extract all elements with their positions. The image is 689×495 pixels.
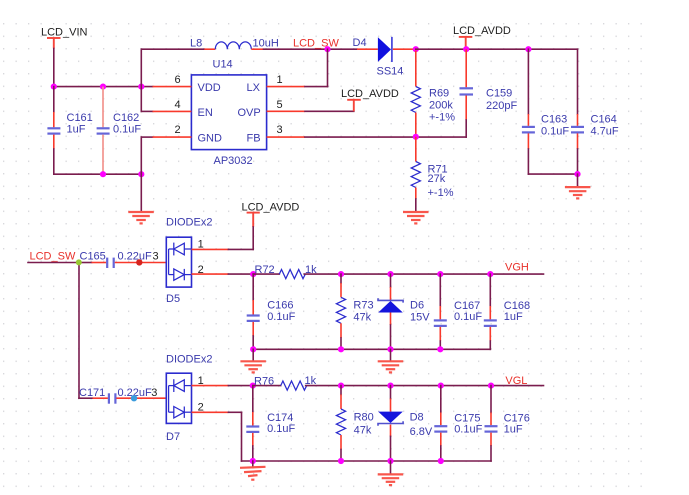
svg-text:4.7uF: 4.7uF bbox=[591, 125, 619, 137]
pin 2 GND bbox=[141, 124, 191, 174]
node junction AVDD 2 bbox=[525, 46, 531, 52]
svg-text:LCD_VIN: LCD_VIN bbox=[41, 27, 88, 39]
svg-text:VDD: VDD bbox=[198, 82, 221, 94]
node junction VGL 5 bbox=[488, 383, 494, 389]
node junction 2 bbox=[100, 84, 106, 90]
svg-text:C164: C164 bbox=[591, 113, 617, 125]
capacitor C166 bbox=[247, 274, 296, 349]
pin number 3 of D5 bbox=[153, 250, 159, 262]
node junction VGL gnd 4 bbox=[438, 458, 444, 464]
svg-text:C171: C171 bbox=[79, 387, 105, 399]
svg-text:1: 1 bbox=[198, 239, 204, 251]
svg-text:+-1%: +-1% bbox=[428, 187, 454, 199]
pin 5 OVP bbox=[267, 99, 354, 112]
power port LCD_AVDD ovp bbox=[341, 88, 399, 112]
net label LCD_SW bbox=[293, 37, 339, 49]
ground GND6 bbox=[240, 461, 266, 480]
pin 1 LX bbox=[267, 49, 328, 86]
node junction 4 bbox=[100, 171, 106, 177]
svg-text:2: 2 bbox=[198, 264, 204, 276]
ground GND5 bbox=[378, 349, 404, 372]
svg-text:4: 4 bbox=[175, 99, 181, 111]
svg-text:47k: 47k bbox=[353, 312, 371, 324]
svg-text:0.1uF: 0.1uF bbox=[113, 124, 141, 136]
svg-text:D4: D4 bbox=[353, 37, 367, 49]
svg-text:C175: C175 bbox=[454, 412, 480, 424]
node junction VGL gnd 2 bbox=[338, 458, 344, 464]
wire VDD rail bbox=[54, 86, 153, 88]
svg-text:R72: R72 bbox=[255, 264, 275, 276]
svg-text:C176: C176 bbox=[504, 412, 530, 424]
svg-text:R73: R73 bbox=[353, 300, 373, 312]
svg-text:6: 6 bbox=[175, 74, 181, 86]
svg-text:AP3032: AP3032 bbox=[214, 155, 253, 167]
node junction VGL 3 bbox=[387, 383, 393, 389]
node junction VGH 3 bbox=[387, 271, 393, 277]
svg-text:6.8V: 6.8V bbox=[410, 426, 433, 438]
svg-text:3: 3 bbox=[277, 124, 283, 136]
node green junction bbox=[76, 259, 82, 265]
wire LCD_VIN vertical bbox=[53, 49, 55, 87]
ground GND2 bbox=[403, 199, 429, 223]
pin 1 of D7 bbox=[192, 375, 253, 387]
capacitor C168 bbox=[484, 274, 530, 349]
svg-text:1uF: 1uF bbox=[504, 311, 523, 323]
svg-text:47k: 47k bbox=[354, 425, 372, 437]
wire VGH rail bbox=[304, 273, 543, 275]
node junction after D4 bbox=[413, 46, 419, 52]
node junction VGH 5 bbox=[487, 271, 493, 277]
capacitor C174 bbox=[246, 386, 295, 461]
svg-text:DIODEx2: DIODEx2 bbox=[166, 353, 212, 365]
wire AVDD top rail bbox=[416, 48, 578, 50]
wire LCD_SW stub bbox=[28, 262, 79, 264]
svg-text:5: 5 bbox=[277, 99, 283, 111]
wire VGH bottom rail bbox=[253, 348, 490, 350]
node junction VGL 1 bbox=[250, 383, 256, 389]
svg-text:DIODEx2: DIODEx2 bbox=[166, 216, 212, 228]
node junction VGH 1 bbox=[250, 271, 256, 277]
node junction C164 bbox=[574, 171, 580, 177]
diode D4 SS14 bbox=[353, 37, 416, 78]
pin 1 of D5 bbox=[192, 239, 254, 251]
wire C163 C164 bottom rail bbox=[528, 173, 577, 175]
svg-text:R80: R80 bbox=[354, 412, 374, 424]
pin 2 of D7 bbox=[192, 402, 242, 462]
svg-text:3: 3 bbox=[153, 250, 159, 262]
ground GND3 bbox=[565, 174, 591, 198]
net label LCD_SW mid bbox=[30, 250, 76, 262]
node junction VGH gnd 1 bbox=[250, 346, 256, 352]
svg-text:C166: C166 bbox=[267, 299, 293, 311]
diode pack D5 bbox=[166, 237, 192, 305]
resistor R76 bbox=[253, 375, 317, 390]
svg-text:2: 2 bbox=[175, 124, 181, 136]
capacitor C164 bbox=[571, 49, 619, 174]
svg-text:LCD_SW: LCD_SW bbox=[293, 37, 339, 49]
capacitor C165 bbox=[79, 250, 166, 268]
node junction 5 bbox=[138, 171, 144, 177]
resistor R73 bbox=[336, 274, 373, 349]
svg-text:C162: C162 bbox=[113, 112, 139, 124]
node junction VGH gnd 3 bbox=[387, 346, 393, 352]
node junction VGL 4 bbox=[438, 383, 444, 389]
svg-text:R69: R69 bbox=[429, 88, 449, 100]
svg-text:EN: EN bbox=[198, 107, 213, 119]
wire top rail left bbox=[141, 49, 204, 111]
wire LCD_SW vertical drop bbox=[78, 263, 80, 399]
label DIODEx2 lower bbox=[166, 353, 212, 365]
wire LCD_SW segment bbox=[264, 48, 358, 50]
zener diode D8 bbox=[378, 386, 433, 461]
svg-text:2: 2 bbox=[198, 402, 204, 414]
op-amp U14 AP3032 bbox=[191, 59, 266, 168]
pin 4 EN bbox=[141, 99, 191, 112]
ground GND4 bbox=[240, 349, 266, 372]
ground GND1 bbox=[128, 174, 154, 223]
svg-text:R76: R76 bbox=[254, 375, 274, 387]
svg-text:LCD_AVDD: LCD_AVDD bbox=[341, 88, 399, 100]
node junction AVDD 1 bbox=[463, 46, 469, 52]
node junction VGH 2 bbox=[338, 271, 344, 277]
capacitor C167 bbox=[434, 274, 483, 349]
svg-text:LCD_SW: LCD_SW bbox=[30, 250, 76, 262]
svg-text:VGL: VGL bbox=[505, 375, 527, 387]
svg-text:0.1uF: 0.1uF bbox=[541, 125, 569, 137]
svg-text:0.1uF: 0.1uF bbox=[454, 311, 482, 323]
node junction VGL 2 bbox=[338, 383, 344, 389]
svg-text:C159: C159 bbox=[486, 88, 512, 100]
node junction VGL gnd 1 bbox=[250, 458, 256, 464]
svg-text:0.1uF: 0.1uF bbox=[267, 311, 295, 323]
svg-text:L8: L8 bbox=[190, 37, 202, 49]
capacitor C175 bbox=[434, 386, 482, 461]
power port LCD_VIN bbox=[41, 27, 88, 49]
svg-text:10uH: 10uH bbox=[253, 37, 279, 49]
svg-text:C161: C161 bbox=[67, 112, 93, 124]
capacitor C163 bbox=[522, 49, 570, 174]
wire VGL bottom rail bbox=[242, 460, 492, 462]
pin 6 VDD bbox=[153, 74, 192, 86]
svg-text:VGH: VGH bbox=[505, 262, 529, 274]
net label VGL bbox=[505, 375, 527, 387]
svg-text:27k: 27k bbox=[428, 173, 446, 185]
diode pack D7 bbox=[166, 373, 192, 443]
svg-text:D7: D7 bbox=[166, 431, 180, 443]
power port LCD_AVDD top bbox=[453, 25, 511, 49]
capacitor C162 bbox=[97, 87, 142, 174]
resistor R72 bbox=[253, 264, 317, 279]
node red junction bbox=[136, 259, 142, 265]
svg-text:0.22uF: 0.22uF bbox=[118, 250, 153, 262]
svg-text:220pF: 220pF bbox=[486, 100, 517, 112]
pin 3 FB bbox=[267, 124, 467, 137]
capacitor C176 bbox=[485, 386, 530, 461]
svg-text:0.1uF: 0.1uF bbox=[454, 424, 482, 436]
node junction VGL gnd 3 bbox=[387, 458, 393, 464]
label DIODEx2 upper bbox=[166, 216, 212, 228]
node FB junction bbox=[413, 134, 419, 140]
capacitor C171 bbox=[79, 387, 166, 404]
svg-text:LCD_AVDD: LCD_AVDD bbox=[453, 25, 511, 37]
svg-text:C163: C163 bbox=[541, 113, 567, 125]
svg-text:200k: 200k bbox=[429, 100, 453, 112]
svg-text:SS14: SS14 bbox=[377, 66, 404, 78]
pin 2 of D5 bbox=[192, 264, 254, 276]
net label VGH bbox=[505, 262, 529, 274]
node blue junction bbox=[131, 395, 137, 401]
capacitor C159 bbox=[460, 49, 518, 137]
svg-text:U14: U14 bbox=[213, 59, 233, 71]
wire GND rail bbox=[54, 173, 142, 175]
svg-text:1: 1 bbox=[277, 74, 283, 86]
svg-text:D6: D6 bbox=[410, 300, 424, 312]
node junction VGH gnd 2 bbox=[338, 346, 344, 352]
svg-text:C165: C165 bbox=[80, 250, 106, 262]
ground GND7 bbox=[378, 461, 404, 485]
svg-text:D5: D5 bbox=[166, 293, 180, 305]
node junction 1 bbox=[51, 84, 57, 90]
svg-text:15V: 15V bbox=[410, 312, 430, 324]
node junction VGH 4 bbox=[437, 271, 443, 277]
svg-text:1uF: 1uF bbox=[504, 424, 523, 436]
node junction 3 bbox=[138, 84, 144, 90]
inductor L8 bbox=[190, 37, 279, 49]
zener diode D6 bbox=[378, 274, 430, 349]
resistor R80 bbox=[336, 386, 373, 461]
power port LCD_AVDD mid bbox=[242, 202, 300, 250]
svg-text:+-1%: +-1% bbox=[429, 112, 455, 124]
svg-text:1uF: 1uF bbox=[67, 124, 86, 136]
svg-text:LX: LX bbox=[247, 82, 261, 94]
svg-text:1: 1 bbox=[198, 375, 204, 387]
node junction VGH gnd 4 bbox=[437, 346, 443, 352]
svg-text:OVP: OVP bbox=[238, 107, 261, 119]
svg-text:D8: D8 bbox=[410, 412, 424, 424]
svg-text:FB: FB bbox=[247, 132, 261, 144]
node LCD_SW junction bbox=[324, 46, 330, 52]
svg-text:0.1uF: 0.1uF bbox=[267, 423, 295, 435]
wire VGL rail bbox=[306, 385, 544, 387]
svg-text:GND: GND bbox=[198, 132, 223, 144]
pin number 3 of D7 bbox=[151, 387, 157, 399]
resistor R71 bbox=[411, 137, 454, 199]
svg-text:3: 3 bbox=[151, 387, 157, 399]
capacitor C161 bbox=[47, 87, 92, 175]
resistor R69 bbox=[411, 51, 455, 137]
